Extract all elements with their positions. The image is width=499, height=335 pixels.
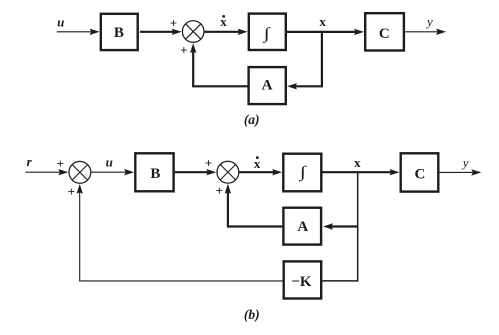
svg-text:+: +: [205, 156, 212, 171]
svg-text:B: B: [150, 166, 160, 182]
svg-text:u: u: [106, 154, 113, 169]
svg-text:+: +: [68, 184, 75, 199]
svg-text:+: +: [170, 16, 177, 31]
svg-text:x: x: [319, 14, 326, 29]
svg-text:A: A: [297, 219, 308, 235]
svg-text:(a): (a): [244, 112, 260, 127]
svg-text:−K: −K: [291, 274, 312, 290]
svg-text:A: A: [262, 78, 273, 94]
svg-text:+: +: [57, 156, 64, 171]
svg-text:y: y: [461, 155, 469, 170]
svg-text:y: y: [425, 14, 433, 29]
svg-text:(b): (b): [244, 307, 260, 322]
svg-text:C: C: [414, 166, 425, 182]
svg-text:+: +: [216, 183, 223, 198]
svg-text:B: B: [114, 25, 124, 41]
svg-text:x: x: [354, 155, 361, 170]
svg-text:+: +: [180, 42, 187, 57]
svg-text:u: u: [57, 14, 64, 29]
svg-text:C: C: [379, 26, 390, 42]
